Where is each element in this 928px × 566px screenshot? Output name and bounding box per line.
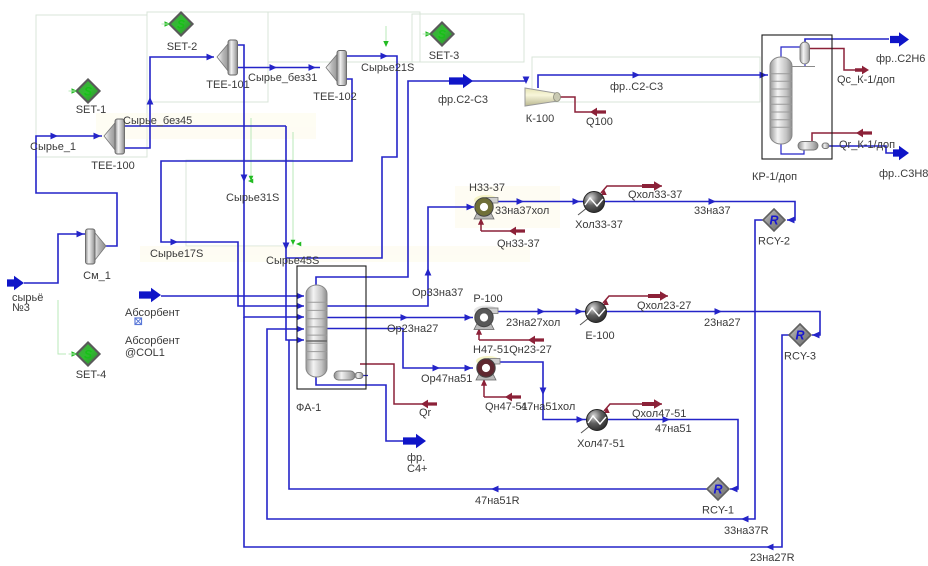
svg-text:RCY-3: RCY-3	[784, 351, 816, 363]
svg-text:@COL1: @COL1	[125, 347, 165, 359]
svg-text:Qхол33-37: Qхол33-37	[628, 189, 682, 201]
svg-text:TEE-100: TEE-100	[91, 160, 134, 172]
svg-text:SET-2: SET-2	[167, 41, 198, 53]
svg-text:S: S	[84, 348, 92, 362]
svg-text:S: S	[177, 18, 185, 32]
svg-text:Qхол47-51: Qхол47-51	[632, 408, 686, 420]
svg-text:№3: №3	[12, 302, 30, 314]
svg-text:Qr_К-1/доп: Qr_К-1/доп	[839, 139, 895, 151]
svg-text:33на37хол: 33на37хол	[495, 205, 549, 217]
svg-text:Сырье21S: Сырье21S	[361, 62, 414, 74]
svg-text:RCY-2: RCY-2	[758, 236, 790, 248]
svg-text:Сырье17S: Сырье17S	[150, 248, 203, 260]
svg-text:Qн33-37: Qн33-37	[497, 238, 540, 250]
svg-text:фр..С2-С3: фр..С2-С3	[610, 81, 663, 93]
svg-text:23на27хол: 23на27хол	[506, 317, 560, 329]
svg-text:Хол47-51: Хол47-51	[577, 438, 625, 450]
svg-text:Хол33-37: Хол33-37	[575, 219, 623, 231]
svg-text:47на51: 47на51	[655, 423, 692, 435]
svg-text:Qхол23-27: Qхол23-27	[637, 300, 691, 312]
svg-text:Абсорбент: Абсорбент	[125, 307, 180, 319]
svg-text:Ор33на37: Ор33на37	[412, 287, 463, 299]
svg-text:Ор47на51: Ор47на51	[421, 373, 472, 385]
svg-text:Ор23на27: Ор23на27	[387, 323, 438, 335]
svg-text:47на51хол: 47на51хол	[521, 401, 575, 413]
svg-text:К-100: К-100	[526, 113, 554, 125]
svg-text:Qc_К-1/доп: Qc_К-1/доп	[837, 74, 895, 86]
svg-text:Н47-51Qн23-27: Н47-51Qн23-27	[473, 344, 552, 356]
svg-text:SET-4: SET-4	[76, 369, 107, 381]
svg-text:RCY-1: RCY-1	[702, 505, 734, 517]
svg-text:Н33-37: Н33-37	[469, 182, 505, 194]
svg-text:Q100: Q100	[586, 116, 613, 128]
svg-text:Сырье45S: Сырье45S	[266, 255, 319, 267]
svg-text:КР-1/доп: КР-1/доп	[752, 171, 797, 183]
svg-text:S: S	[438, 28, 446, 42]
svg-text:Абсорбент: Абсорбент	[125, 335, 180, 347]
svg-text:33на37: 33на37	[694, 205, 731, 217]
svg-text:TEE-102: TEE-102	[313, 91, 356, 103]
svg-text:47на51R: 47на51R	[475, 495, 520, 507]
svg-text:Сырье_1: Сырье_1	[30, 141, 76, 153]
svg-text:Р-100: Р-100	[473, 293, 502, 305]
svg-text:23на27: 23на27	[704, 317, 741, 329]
svg-text:SET-3: SET-3	[429, 50, 460, 62]
svg-text:Qr: Qr	[419, 407, 432, 419]
svg-text:S: S	[84, 85, 92, 99]
svg-text:См_1: См_1	[83, 270, 111, 282]
svg-text:Е-100: Е-100	[585, 330, 614, 342]
svg-text:R: R	[769, 214, 778, 228]
svg-text:SET-1: SET-1	[76, 104, 107, 116]
svg-text:фр..С2Н6: фр..С2Н6	[876, 53, 925, 65]
svg-text:фр.С2-С3: фр.С2-С3	[438, 94, 488, 106]
svg-text:R: R	[713, 483, 722, 497]
svg-text:С4+: С4+	[407, 463, 428, 475]
svg-text:R: R	[795, 329, 804, 343]
svg-text:фр..С3Н8: фр..С3Н8	[879, 168, 928, 180]
svg-text:Сырье_без45: Сырье_без45	[123, 115, 192, 127]
svg-text:33на37R: 33на37R	[724, 525, 769, 537]
svg-text:Сырье_без31: Сырье_без31	[248, 72, 317, 84]
svg-text:TEE-101: TEE-101	[206, 79, 249, 91]
svg-text:Сырье31S: Сырье31S	[226, 192, 279, 204]
svg-text:23на27R: 23на27R	[750, 552, 795, 564]
svg-text:ФА-1: ФА-1	[296, 402, 321, 414]
